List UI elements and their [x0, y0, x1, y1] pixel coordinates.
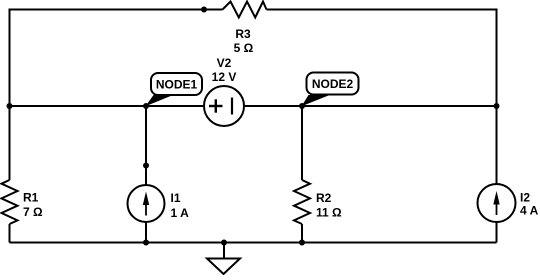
wire I2 bottom lead [496, 222, 498, 243]
wire node1 drop [145, 106, 147, 185]
svg-text:12 V: 12 V [212, 70, 237, 84]
svg-text:R3: R3 [235, 27, 251, 41]
svg-text:NODE1: NODE1 [156, 78, 198, 92]
I1 arrow [143, 192, 149, 216]
node dot NODE2 junction [299, 103, 305, 109]
current source I2 circle [478, 184, 516, 222]
svg-text:R1: R1 [23, 191, 39, 205]
V2 plus sign [209, 98, 232, 115]
resistor R3 [223, 2, 267, 18]
wire left branch lower [9, 224, 11, 243]
svg-text:5 Ω: 5 Ω [234, 41, 254, 55]
svg-text:NODE2: NODE2 [312, 77, 354, 91]
voltage source V2 circle [204, 86, 244, 126]
wire middle rail left [10, 105, 205, 107]
node dot above I1 [143, 163, 149, 169]
callout NODE2 [302, 73, 359, 107]
wire node2 drop [301, 106, 303, 180]
node dot bottom I1 [143, 240, 149, 246]
V2 bar [231, 98, 233, 115]
svg-text:I1: I1 [171, 191, 181, 205]
callout NODE1 [146, 73, 203, 106]
wire R2 bottom lead [301, 224, 303, 243]
current source I1 circle [128, 185, 165, 222]
wire I2 top lead [496, 106, 498, 184]
resistor R1 [2, 180, 18, 224]
wire bottom rail [10, 242, 497, 244]
wire top rail right segment [267, 10, 497, 107]
node dot right middle [494, 103, 500, 109]
node dot top [201, 7, 207, 13]
node dot bottom R2 [299, 240, 305, 246]
svg-text:4 A: 4 A [520, 204, 539, 218]
wire I1 bottom lead [145, 222, 147, 243]
svg-text:1 A: 1 A [171, 206, 190, 220]
I2 arrow [493, 191, 499, 215]
wire left branch upper [9, 106, 11, 180]
svg-text:R2: R2 [316, 191, 332, 205]
svg-text:I2: I2 [520, 191, 530, 205]
resistor R2 [294, 180, 310, 224]
svg-text:V2: V2 [217, 56, 232, 70]
wire top rail left segment [10, 10, 223, 107]
svg-text:7 Ω: 7 Ω [23, 205, 43, 219]
ground [207, 243, 240, 275]
node dot NODE1 junction [143, 103, 149, 109]
svg-text:11 Ω: 11 Ω [316, 206, 342, 220]
wire middle rail right [244, 105, 496, 107]
node dot bottom ground [221, 240, 227, 246]
node dot left middle [7, 103, 13, 109]
